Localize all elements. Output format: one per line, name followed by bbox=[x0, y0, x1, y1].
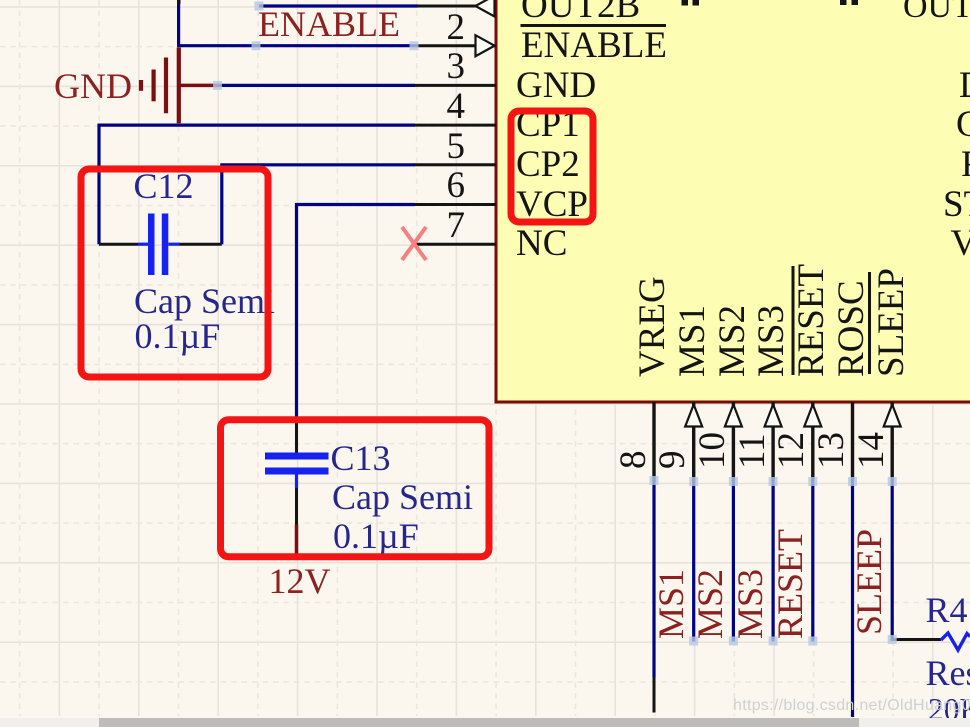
resistor R4 left pin (black) bbox=[891, 638, 942, 641]
bottom pin 10 bbox=[732, 402, 735, 482]
pin number 4 bbox=[400, 89, 465, 124]
bottom pin 8 (black) bbox=[652, 402, 655, 482]
wire pin4 net to C12 left bbox=[99, 125, 415, 244]
bottom pin 9 bbox=[692, 402, 695, 482]
red annotation rectangle around C13 bbox=[221, 420, 490, 557]
rotated bottom pin name MS2 bbox=[715, 305, 750, 377]
pin 6 name label VCP bbox=[516, 187, 588, 222]
wire RESET net (pin 12) bbox=[811, 482, 814, 642]
op-amp U1 IC body (yellow rectangle, maroon border) bbox=[496, 0, 970, 402]
red annotation rectangle around CP1/CP2/VCP bbox=[511, 111, 593, 222]
right-edge pin name VDD (cut) bbox=[951, 226, 970, 261]
right-edge pin name STEP (cut) bbox=[943, 187, 970, 222]
bottom pin 14 bbox=[891, 402, 894, 482]
rotated pin number 10 bbox=[695, 432, 730, 469]
pin number 3 bbox=[400, 49, 465, 84]
power port 12V stem bbox=[295, 525, 299, 557]
C13 comment Cap Semi bbox=[332, 480, 473, 515]
net label ENABLE bbox=[258, 7, 400, 42]
wire pin1 net bbox=[259, 4, 418, 7]
rotated net label MS3 bbox=[733, 569, 768, 639]
rotated net label RESET bbox=[773, 529, 808, 639]
pin number 2 bbox=[400, 10, 465, 45]
C13 value 0.1uF bbox=[333, 519, 419, 554]
rotated bottom pin name ROSC bbox=[834, 280, 869, 377]
rotated bottom pin name MS3 bbox=[754, 305, 789, 377]
C12 value 0.1uF bbox=[135, 319, 221, 354]
bottom pin 11 bbox=[771, 402, 774, 482]
SLEEP pin-name overline (rotated) bbox=[868, 272, 871, 374]
capacitor C13 designator bbox=[331, 441, 391, 476]
scrollbar thumb bbox=[99, 718, 859, 727]
pin 4 name label CP1 bbox=[516, 107, 580, 142]
pin 2 input triangle bbox=[476, 35, 495, 56]
ground symbol GND (rotated bars) bbox=[141, 48, 219, 124]
stub of wire above at top edge bbox=[177, 0, 181, 4]
capacitor C12 (vertical plates) bbox=[99, 214, 222, 276]
R4 value 20K bbox=[928, 692, 970, 727]
rotated bottom pin name MS1 bbox=[675, 305, 710, 377]
wire pin3 GND net bbox=[219, 84, 415, 87]
scrollbar track bbox=[0, 718, 970, 727]
ENABLE pin-name overline bbox=[521, 24, 667, 27]
pin 7 NC (black) bbox=[415, 243, 497, 246]
wire pin6 net to C13 top bbox=[297, 205, 416, 421]
rotated net label MS1 bbox=[654, 569, 689, 639]
power port label GND bbox=[54, 69, 132, 104]
wire MS2 net (pin 10) bbox=[732, 482, 735, 642]
pin 5 name label CP2 bbox=[516, 147, 580, 182]
C12 comment Cap Semi bbox=[134, 284, 275, 319]
right-edge pin name DIR (cut) bbox=[959, 68, 970, 103]
wire MS1 net (pin 9) bbox=[692, 482, 695, 642]
rotated bottom pin name SLEEP bbox=[874, 268, 909, 377]
light blue hotspot markers bbox=[213, 2, 897, 646]
right-edge pin name GND (cut) bbox=[956, 107, 970, 142]
rotated pin number 13 bbox=[814, 432, 849, 469]
pin 1 name label OUT2B bbox=[521, 0, 640, 23]
capacitor C12 designator bbox=[134, 169, 194, 204]
rotated pin number 8 bbox=[616, 450, 651, 469]
wire VREG net (pin 8, blue then black lower pin) bbox=[652, 480, 655, 678]
watermark bbox=[733, 696, 970, 716]
wire pin2 ENABLE net (vertical from top + horizontal to pin 2) bbox=[179, 0, 417, 46]
wire pin5 net to C12 right bbox=[222, 165, 415, 244]
pin number 6 bbox=[400, 168, 465, 203]
wire MS3 net (pin 11) bbox=[771, 482, 774, 642]
pin 2 name label ENABLE bbox=[521, 28, 667, 63]
resistor R4 zigzag body bbox=[941, 633, 970, 650]
pin 3 name label GND bbox=[516, 68, 596, 103]
pin 4 (black) bbox=[415, 124, 497, 127]
red annotation rectangle around C12 bbox=[81, 169, 268, 377]
pin 3 (black) bbox=[415, 84, 497, 87]
pin 1 output triangle bbox=[476, 0, 495, 17]
wire ROSC net (pin 13) bbox=[851, 482, 854, 718]
pin number 7 bbox=[400, 208, 465, 243]
rotated net label MS2 bbox=[693, 569, 728, 639]
rotated pin number 9 bbox=[655, 450, 690, 469]
wire SLEEP net (pin 14) bbox=[891, 482, 894, 640]
bottom pin 12 bbox=[811, 402, 814, 482]
pin 5 (black) bbox=[415, 163, 497, 166]
rotated bottom pin name VREG bbox=[635, 276, 670, 377]
bottom pin 13 bbox=[851, 402, 854, 482]
rotated pin number 11 bbox=[735, 433, 770, 469]
rotated net label SLEEP bbox=[852, 529, 887, 635]
rotated pin number 14 bbox=[854, 432, 889, 469]
right-edge pin name REF (cut) bbox=[961, 147, 970, 182]
pin 7 name label NC bbox=[516, 226, 567, 261]
input triangles on pins 9-12,14 bbox=[685, 405, 702, 427]
R4 comment Res bbox=[926, 656, 970, 691]
top edge text remnants bbox=[682, 0, 689, 6]
RESET pin-name overline (rotated) bbox=[792, 266, 795, 375]
rotated pin number 12 bbox=[774, 432, 809, 469]
pin 1 (black) bbox=[417, 5, 495, 8]
resistor R4 designator bbox=[926, 593, 968, 628]
rotated bottom pin name RESET bbox=[794, 264, 829, 377]
pin number 5 bbox=[400, 129, 465, 164]
power port label 12V bbox=[269, 564, 331, 599]
red no-ERC cross on pin 7 bbox=[402, 227, 426, 260]
capacitor C13 (horizontal plates) bbox=[265, 419, 329, 525]
pin 6 (black) bbox=[415, 203, 497, 206]
pin 2 (black) bbox=[417, 44, 495, 47]
right-edge pin name OUT1B (cut) bbox=[903, 0, 970, 24]
